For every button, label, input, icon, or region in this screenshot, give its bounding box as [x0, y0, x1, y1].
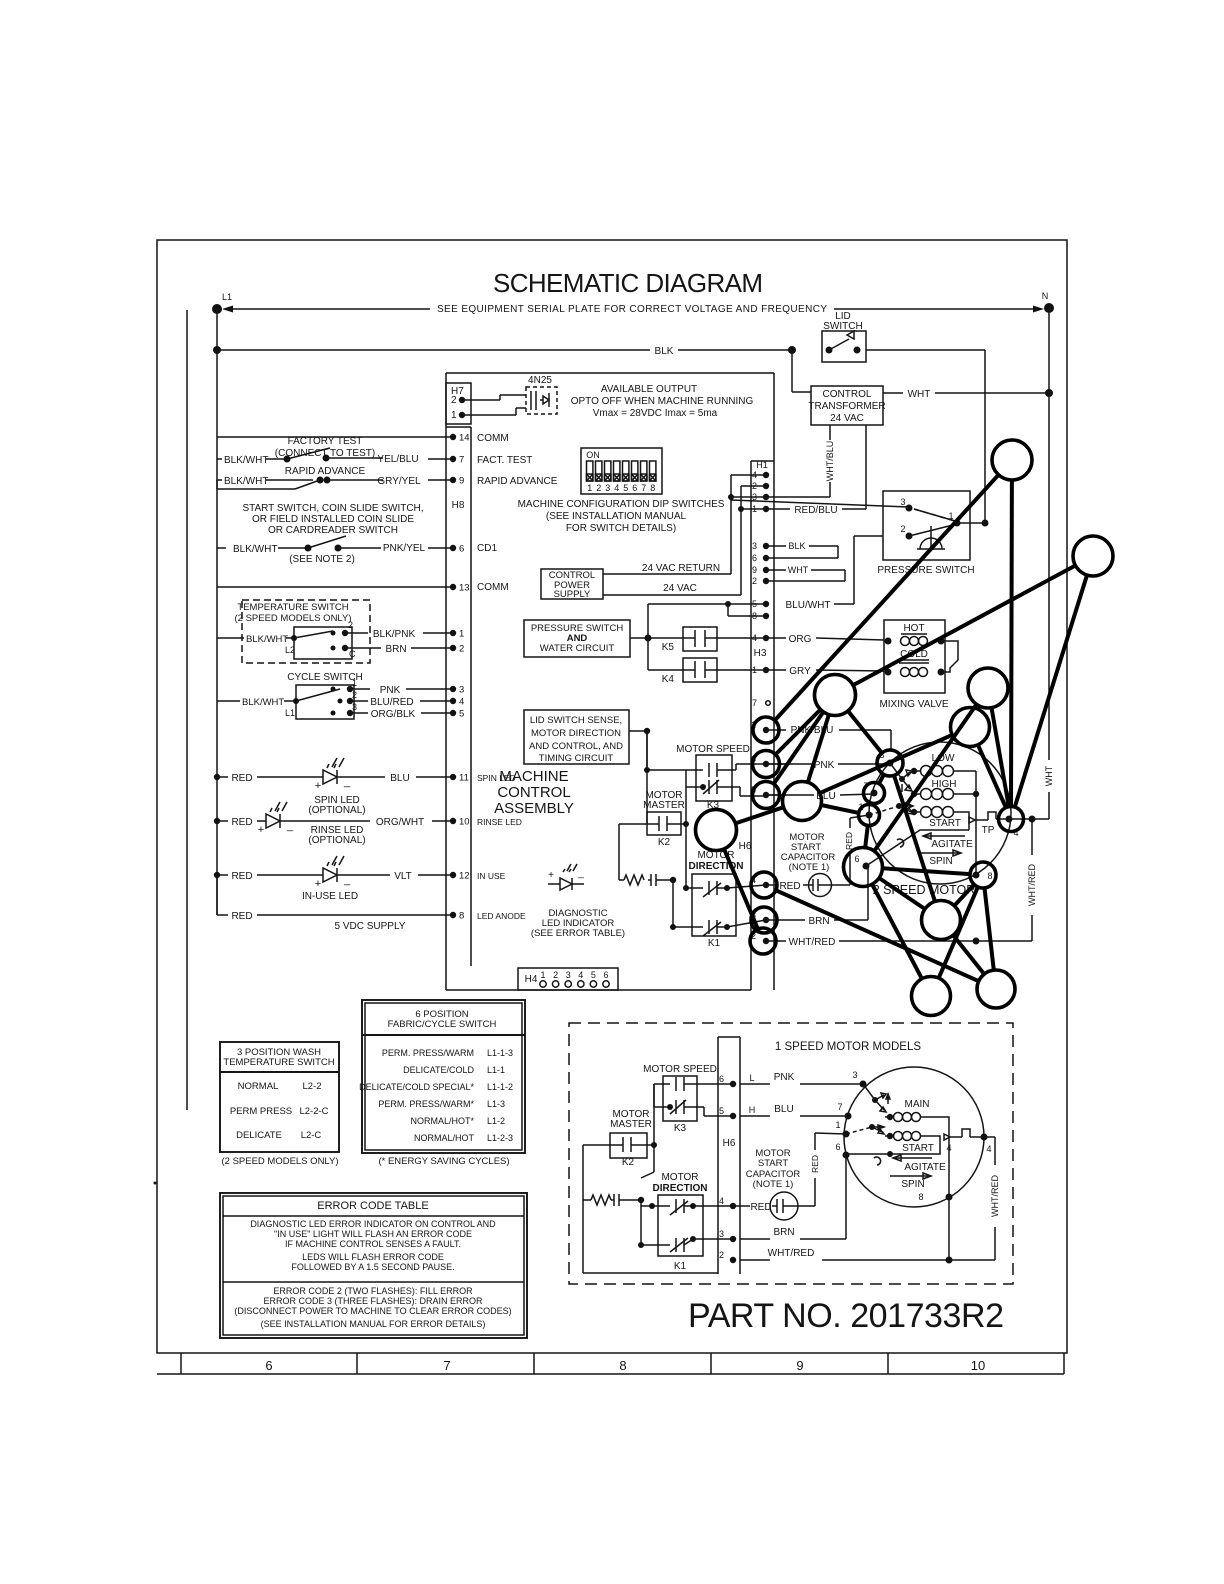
lid switch sense box: [524, 710, 629, 764]
svg-text:GRY: GRY: [789, 666, 811, 677]
wire WHT vertical: [1009, 818, 1049, 820]
svg-text:7: 7: [752, 698, 757, 708]
node J: [696, 810, 737, 851]
svg-text:1: 1: [587, 483, 592, 493]
start switch: [217, 536, 381, 565]
motor speed K3: [676, 744, 750, 811]
wire A-O: [1009, 480, 1014, 807]
svg-text:(DISCONNECT POWER TO MACHINE T: (DISCONNECT POWER TO MACHINE TO CLEAR ER…: [234, 1306, 511, 1316]
svg-text:ORG/BLK: ORG/BLK: [371, 709, 416, 720]
wire K-Q: [894, 775, 935, 901]
wire B-O: [1015, 575, 1087, 807]
svg-text:RAPID ADVANCE: RAPID ADVANCE: [477, 476, 558, 487]
pin6 bracket: [866, 830, 969, 866]
svg-text:BLU/WHT: BLU/WHT: [786, 600, 831, 611]
svg-text:MOTOR SPEED: MOTOR SPEED: [643, 1064, 717, 1075]
wire BLK line: [213, 346, 221, 354]
machine control assembly box: [446, 372, 774, 374]
wire N vertical: [1048, 308, 1050, 393]
svg-text:SCHEMATIC DIAGRAM: SCHEMATIC DIAGRAM: [493, 268, 763, 298]
wire C-K: [848, 711, 882, 753]
svg-text:_: _: [343, 874, 351, 886]
svg-text:H1: H1: [756, 460, 768, 470]
svg-text:5 VDC SUPPLY: 5 VDC SUPPLY: [335, 921, 406, 932]
svg-text:LID SWITCH SENSE,: LID SWITCH SENSE,: [530, 715, 622, 726]
motor master K2: [643, 790, 685, 848]
svg-text:BLK: BLK: [655, 346, 674, 357]
wire BLU: [766, 794, 786, 796]
svg-text:RED: RED: [231, 871, 252, 882]
motor right rail: [975, 771, 977, 875]
wire PNK/BLU: [766, 729, 786, 731]
control power supply box: [541, 569, 603, 600]
svg-text:IN USE: IN USE: [477, 871, 506, 881]
node K: [877, 750, 903, 776]
svg-text:CONTROL: CONTROL: [823, 389, 872, 400]
motor pins (1-speed): [860, 1081, 867, 1088]
wire B-C: [853, 566, 1075, 686]
svg-text:7: 7: [641, 483, 646, 493]
wire D-O: [992, 708, 1009, 807]
node D: [968, 668, 1008, 708]
wire ORG/BLK to pin5: [350, 712, 368, 714]
svg-text:(OPTIONAL): (OPTIONAL): [308, 805, 365, 816]
svg-text:6: 6: [719, 1074, 724, 1084]
wire ps pin2 left: [854, 535, 883, 537]
node P: [970, 862, 996, 888]
svg-text:CD1: CD1: [477, 543, 497, 554]
svg-text:DELICATE/COLD SPECIAL*: DELICATE/COLD SPECIAL*: [359, 1082, 474, 1092]
wire PNK to pin3: [350, 688, 370, 690]
svg-text:(2 SPEED MODELS ONLY): (2 SPEED MODELS ONLY): [234, 613, 351, 624]
svg-text:FABRIC/CYCLE SWITCH: FABRIC/CYCLE SWITCH: [388, 1019, 497, 1030]
wire N-Q: [879, 878, 925, 909]
wire RED/BLU riser: [865, 425, 867, 509]
motor internal wipers: [869, 763, 913, 847]
wire C-G: [776, 710, 821, 755]
svg-text:RED: RED: [231, 911, 252, 922]
wire BLU/WHT: [725, 601, 731, 607]
node L: [864, 783, 885, 804]
wire WHT/RED: [766, 940, 786, 942]
svg-text:5: 5: [459, 709, 464, 720]
svg-text:WHT/RED: WHT/RED: [1027, 864, 1037, 906]
svg-text:3: 3: [719, 1229, 724, 1239]
WHT/RED riser (1-speed): [984, 1136, 995, 1138]
svg-text:RED: RED: [810, 1155, 820, 1173]
node N: [1044, 303, 1054, 313]
svg-text:IF MACHINE CONTROL SENSES A FA: IF MACHINE CONTROL SENSES A FAULT.: [285, 1239, 461, 1249]
svg-text:7: 7: [443, 1358, 450, 1373]
svg-text:MOTOR SPEED: MOTOR SPEED: [676, 744, 750, 755]
wire D-N: [874, 704, 976, 851]
svg-text:DELICATE/COLD: DELICATE/COLD: [403, 1065, 474, 1075]
table: 6 position fabric/cycle switch: [359, 1000, 525, 1167]
tiny period mark: [154, 1182, 157, 1185]
node G: [753, 751, 780, 778]
svg-text:NORMAL/HOT*: NORMAL/HOT*: [410, 1116, 474, 1126]
control transformer: [808, 386, 885, 425]
svg-text:NORMAL: NORMAL: [238, 1081, 279, 1092]
svg-text:WHT/RED: WHT/RED: [990, 1175, 1000, 1217]
svg-text:ERROR CODE TABLE: ERROR CODE TABLE: [317, 1200, 428, 1212]
svg-text:ORG: ORG: [789, 634, 812, 645]
node V: [750, 928, 776, 954]
wire J-V: [724, 849, 758, 929]
svg-text:1: 1: [459, 629, 464, 640]
svg-text:AND CONTROL, AND: AND CONTROL, AND: [529, 741, 623, 752]
svg-text:11: 11: [459, 773, 469, 784]
svg-text:(OPTIONAL): (OPTIONAL): [308, 835, 365, 846]
svg-text:ASSEMBLY: ASSEMBLY: [494, 800, 574, 817]
svg-text:BLK: BLK: [788, 541, 805, 551]
svg-text:ERROR CODE 3 (THREE FLASHES):: ERROR CODE 3 (THREE FLASHES): DRAIN ERRO…: [263, 1296, 483, 1306]
wire I-J: [735, 807, 783, 823]
opto 4N25: [462, 375, 557, 415]
svg-text:RED: RED: [231, 817, 252, 828]
svg-text:DIRECTION: DIRECTION: [689, 861, 744, 872]
svg-text:K2: K2: [622, 1157, 635, 1168]
wire E-I: [820, 735, 952, 793]
svg-text:9: 9: [459, 476, 464, 487]
wire WHT: [883, 392, 1049, 394]
wire P-Q: [954, 885, 974, 906]
svg-text:L1: L1: [222, 292, 232, 302]
svg-text:LED ANODE: LED ANODE: [477, 911, 526, 921]
svg-text:BLK/WHT: BLK/WHT: [224, 476, 268, 487]
svg-text:_: _: [343, 776, 351, 788]
svg-text:L2-C: L2-C: [301, 1130, 322, 1141]
svg-text:START: START: [902, 1143, 934, 1154]
internal wipers (1-speed): [846, 1084, 890, 1165]
svg-text:OR FIELD INSTALLED COIN SLIDE: OR FIELD INSTALLED COIN SLIDE: [252, 514, 414, 525]
svg-text:3: 3: [605, 483, 610, 493]
svg-text:DIRECTION: DIRECTION: [653, 1183, 708, 1194]
wire C-H: [774, 712, 824, 784]
svg-text:TEMPERATURE SWITCH: TEMPERATURE SWITCH: [237, 602, 348, 613]
node I: [783, 782, 822, 821]
svg-text:H8: H8: [452, 500, 465, 511]
svg-text:4: 4: [719, 1196, 724, 1206]
svg-text:MOTOR: MOTOR: [661, 1172, 698, 1183]
svg-text:6: 6: [632, 483, 637, 493]
TP contact: [969, 812, 1019, 838]
spin led row: [214, 758, 516, 816]
svg-text:14: 14: [459, 433, 470, 444]
svg-text:BRN: BRN: [773, 1227, 794, 1238]
temperature switch (dashed): [217, 600, 370, 663]
svg-text:WHT/RED: WHT/RED: [789, 937, 836, 948]
svg-text:L2-2-C: L2-2-C: [299, 1106, 328, 1117]
svg-text:AGITATE: AGITATE: [931, 839, 973, 850]
svg-text:BLK/WHT: BLK/WHT: [224, 455, 268, 466]
factory test switch: [217, 436, 383, 466]
node A: [992, 440, 1032, 480]
svg-text:2: 2: [596, 483, 601, 493]
svg-text:H: H: [749, 1105, 756, 1115]
wire BRN to pin2: [352, 647, 381, 649]
connector H4: [518, 968, 618, 990]
node U: [751, 907, 777, 933]
svg-text:L1-1-3: L1-1-3: [487, 1048, 513, 1058]
svg-text:WHT: WHT: [788, 565, 809, 575]
node R: [912, 977, 951, 1016]
svg-text:COMM: COMM: [477, 433, 509, 444]
svg-text:FACTORY TEST: FACTORY TEST: [288, 436, 363, 447]
svg-text:8: 8: [619, 1358, 626, 1373]
svg-text:6: 6: [265, 1358, 272, 1373]
svg-text:2: 2: [451, 395, 457, 406]
svg-text:BLK/PNK: BLK/PNK: [373, 629, 416, 640]
svg-text:4: 4: [578, 970, 583, 980]
wire RED + capacitor: [766, 884, 777, 886]
svg-text:SPIN: SPIN: [901, 1179, 924, 1190]
svg-text:LEDS WILL FLASH ERROR CODE: LEDS WILL FLASH ERROR CODE: [302, 1252, 444, 1262]
wire E-O: [978, 745, 1006, 808]
svg-text:L: L: [749, 1073, 754, 1083]
svg-text:K2: K2: [658, 837, 671, 848]
node Q: [922, 901, 961, 940]
svg-text:BLK/WHT: BLK/WHT: [246, 634, 288, 645]
svg-text:TEMPERATURE SWITCH: TEMPERATURE SWITCH: [223, 1057, 334, 1068]
node S: [977, 970, 1015, 1008]
svg-text:BLK/WHT: BLK/WHT: [242, 697, 284, 708]
wire A-F: [775, 475, 999, 721]
mixing valve right bracket: [941, 641, 958, 672]
svg-text:H6: H6: [739, 841, 752, 852]
wire PNK: [766, 763, 786, 765]
page border: [157, 240, 1067, 1353]
svg-text:9: 9: [752, 565, 757, 575]
wire BLU (1-speed): [740, 1115, 770, 1117]
svg-text:PERM. PRESS/WARM*: PERM. PRESS/WARM*: [378, 1099, 474, 1109]
one speed motor models dashed box: [569, 1023, 1013, 1284]
motor direction K1: [670, 824, 744, 949]
svg-text:START: START: [929, 818, 961, 829]
svg-text:MOTOR DIRECTION: MOTOR DIRECTION: [531, 728, 621, 739]
svg-text:24 VAC RETURN: 24 VAC RETURN: [642, 563, 720, 574]
svg-text:K5: K5: [662, 642, 675, 653]
coil right rails: [931, 1117, 949, 1260]
svg-text:RINSE LED: RINSE LED: [477, 817, 522, 827]
node T: [751, 872, 777, 898]
svg-text:1: 1: [451, 410, 457, 421]
svg-text:3: 3: [459, 685, 464, 696]
svg-text:WHT: WHT: [908, 389, 931, 400]
svg-text:1 SPEED MOTOR MODELS: 1 SPEED MOTOR MODELS: [775, 1041, 921, 1053]
svg-text:N: N: [1042, 291, 1049, 301]
svg-text:10: 10: [971, 1358, 985, 1373]
svg-text:L1-2: L1-2: [487, 1116, 505, 1126]
svg-text:RED: RED: [844, 832, 854, 850]
dip switch block: [581, 448, 662, 494]
H6 column (1-speed): [718, 1037, 755, 1274]
wire N-R: [872, 884, 922, 978]
svg-text:FACT. TEST: FACT. TEST: [477, 455, 532, 466]
svg-text:+: +: [258, 824, 264, 836]
svg-text:HOT: HOT: [903, 623, 924, 634]
serial plate line with arrows: [222, 306, 233, 313]
svg-text:OR CARDREADER SWITCH: OR CARDREADER SWITCH: [268, 525, 398, 536]
svg-text:PERM. PRESS/WARM: PERM. PRESS/WARM: [382, 1048, 474, 1058]
motor direction K1 (1-speed): [638, 1172, 708, 1272]
cycle switch: [217, 672, 363, 719]
node F: [753, 717, 779, 743]
svg-text:RED: RED: [779, 881, 800, 892]
svg-text:L1-1: L1-1: [487, 1065, 505, 1075]
node L1: [212, 304, 222, 314]
wire L1 vertical: [216, 309, 218, 437]
K5 contact: [630, 627, 766, 653]
wire lid switch to vertical right: [788, 346, 796, 354]
motor speed K3 (1-speed): [643, 1064, 717, 1134]
svg-text:BRN: BRN: [385, 644, 406, 655]
svg-text:TRANSFORMER: TRANSFORMER: [808, 401, 885, 412]
svg-text:(2 SPEED MODELS ONLY): (2 SPEED MODELS ONLY): [221, 1156, 338, 1167]
svg-text:MACHINE CONFIGURATION DIP SWIT: MACHINE CONFIGURATION DIP SWITCHES: [518, 499, 725, 510]
svg-text:4: 4: [986, 1144, 991, 1154]
svg-text:TIMING CIRCUIT: TIMING CIRCUIT: [539, 753, 614, 764]
svg-text:RAPID ADVANCE: RAPID ADVANCE: [285, 466, 366, 477]
svg-text:2: 2: [352, 690, 357, 700]
svg-text:TP: TP: [982, 825, 995, 836]
svg-text:5: 5: [719, 1106, 724, 1116]
svg-text:4: 4: [614, 483, 619, 493]
svg-text:PNK/YEL: PNK/YEL: [383, 543, 426, 554]
svg-text:DELICATE: DELICATE: [236, 1130, 282, 1141]
wire C-I: [808, 715, 829, 783]
svg-text:DIAGNOSTIC LED ERROR INDICATOR: DIAGNOSTIC LED ERROR INDICATOR ON CONTRO…: [250, 1219, 496, 1229]
svg-text:8: 8: [650, 483, 655, 493]
svg-text:VLT: VLT: [394, 871, 412, 882]
svg-text:H6: H6: [723, 1138, 736, 1149]
svg-text:1: 1: [352, 678, 357, 688]
svg-text:SUPPLY: SUPPLY: [554, 589, 591, 600]
node H: [753, 782, 780, 809]
svg-text:ON: ON: [586, 450, 600, 460]
svg-text:+: +: [548, 870, 554, 881]
lid switch: [822, 311, 866, 362]
mixing valve: [879, 620, 948, 710]
wire RED + capacitor (1-speed): [733, 1205, 750, 1207]
motor pins: [887, 760, 894, 767]
svg-text:START SWITCH, COIN SLIDE SWITC: START SWITCH, COIN SLIDE SWITCH,: [242, 503, 423, 514]
motor master K2 (1-speed): [610, 1109, 652, 1168]
svg-text:(NOTE 1): (NOTE 1): [753, 1179, 794, 1190]
svg-text:6: 6: [854, 854, 859, 864]
svg-text:L1-2-3: L1-2-3: [487, 1133, 513, 1143]
svg-text:(SEE INSTALLATION MANUAL FOR E: (SEE INSTALLATION MANUAL FOR ERROR DETAI…: [261, 1319, 486, 1329]
svg-text:3: 3: [900, 497, 905, 507]
svg-text:PRESSURE SWITCH: PRESSURE SWITCH: [877, 565, 974, 576]
wire P-R: [939, 887, 978, 978]
svg-text:Vmax = 28VDC Imax =: Vmax = 28VDC Imax = 5ma: [593, 408, 718, 419]
svg-text:RED: RED: [750, 1202, 771, 1213]
connector H3: [752, 541, 770, 708]
svg-text:CONTROL: CONTROL: [497, 784, 570, 801]
svg-text:SEE EQUIPMENT SERIAL PLATE FOR: SEE EQUIPMENT SERIAL PLATE FOR CORRECT V…: [437, 304, 827, 315]
svg-text:BLK/WHT: BLK/WHT: [233, 544, 277, 555]
svg-text:BRN: BRN: [808, 916, 829, 927]
svg-text:3: 3: [852, 1070, 857, 1080]
svg-text:WATER CIRCUIT: WATER CIRCUIT: [540, 643, 615, 654]
table: 3 position wash temperature switch: [220, 1042, 339, 1167]
rc snubber (1-speed): [583, 1194, 644, 1206]
svg-text:24 VAC: 24 VAC: [830, 413, 864, 424]
svg-text:8: 8: [987, 871, 992, 881]
svg-text:3: 3: [566, 970, 571, 980]
svg-text:4N25: 4N25: [528, 375, 552, 386]
svg-text:2: 2: [459, 644, 464, 655]
svg-text:8: 8: [459, 911, 464, 922]
rapid advance switch: [217, 466, 383, 489]
svg-text:AGITATE: AGITATE: [904, 1162, 946, 1173]
svg-text:L2-2: L2-2: [302, 1081, 321, 1092]
svg-text:MASTER: MASTER: [610, 1119, 652, 1130]
node E: [951, 708, 990, 747]
svg-text:MIXING VALVE: MIXING VALVE: [879, 699, 948, 710]
svg-text:_: _: [577, 868, 584, 879]
svg-text:START: START: [758, 1158, 788, 1169]
svg-text:ERROR CODE 2 (TWO FLASHES): F: ERROR CODE 2 (TWO FLASHES): FILL ERROR: [273, 1286, 473, 1296]
wire ORG: [766, 637, 786, 639]
1-speed motor circle: [844, 1067, 984, 1207]
connector H1: [751, 460, 774, 990]
svg-text:YEL/BLU: YEL/BLU: [377, 454, 418, 465]
table: error code table: [220, 1193, 527, 1338]
2 speed motor circle: [869, 742, 1011, 884]
svg-text:L1: L1: [285, 708, 295, 718]
svg-text:12: 12: [459, 871, 470, 882]
svg-text:13: 13: [459, 583, 470, 594]
agitate spin arrows: [920, 833, 973, 867]
svg-text:2: 2: [900, 524, 905, 534]
svg-text:+: +: [315, 780, 321, 792]
svg-text:K3: K3: [674, 1123, 687, 1134]
pressure switch and water circuit box: [524, 620, 630, 657]
rinse led row: [214, 802, 522, 846]
svg-text:BLU/RED: BLU/RED: [370, 697, 413, 708]
svg-text:NORMAL/HOT: NORMAL/HOT: [414, 1133, 475, 1143]
svg-text:9: 9: [796, 1358, 803, 1373]
svg-text:IN-USE LED: IN-USE LED: [302, 891, 358, 902]
svg-text:8: 8: [918, 1192, 923, 1202]
svg-text:L1-1-2: L1-1-2: [487, 1082, 513, 1092]
svg-text:ORG/WHT: ORG/WHT: [376, 817, 424, 828]
node B: [1073, 536, 1113, 576]
wire BLU/RED to pin4: [350, 700, 368, 702]
connector H7: [446, 383, 471, 424]
wire I-M: [821, 805, 859, 813]
wire ps pin1 to vertical: [957, 522, 985, 524]
svg-text:MASTER: MASTER: [643, 800, 685, 811]
left feeder rail: [216, 437, 218, 915]
svg-text:(* ENERGY SAVING CYCLES): (* ENERGY SAVING CYCLES): [378, 1156, 509, 1167]
svg-text:4: 4: [946, 1143, 951, 1153]
wire K-L: [879, 775, 884, 784]
wire T-S: [776, 890, 979, 981]
svg-text:L1-3: L1-3: [487, 1099, 505, 1109]
wire N-P: [883, 868, 971, 874]
svg-text:WHT/RED: WHT/RED: [768, 1248, 815, 1259]
wire WHT/BLU vertical: [829, 425, 831, 497]
svg-text:5: 5: [591, 970, 596, 980]
svg-text:FOLLOWED BY A 1.5 SECOND PAUSE: FOLLOWED BY A 1.5 SECOND PAUSE.: [291, 1262, 454, 1272]
in-use led row: [214, 856, 506, 902]
wire to transformer: [791, 350, 793, 392]
bottom return wire: [582, 1200, 584, 1273]
START coil: [887, 1133, 893, 1139]
